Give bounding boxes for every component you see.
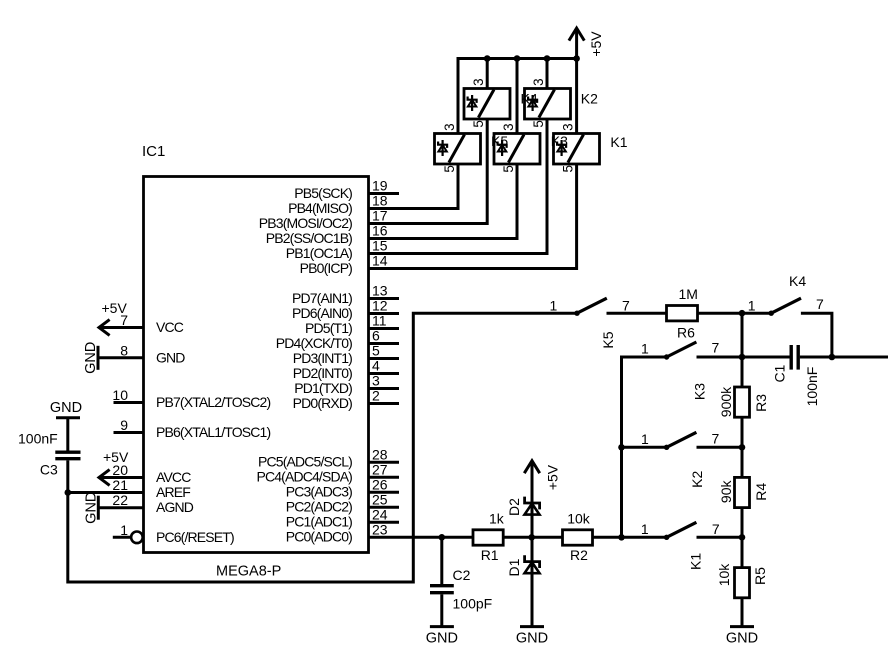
svg-text:7: 7 xyxy=(816,296,824,312)
pin 22 AGND label xyxy=(112,492,193,515)
switch K5 contact xyxy=(550,298,630,349)
svg-text:GND: GND xyxy=(83,492,99,524)
relay coil K5 xyxy=(435,123,509,172)
svg-text:K5: K5 xyxy=(600,331,616,348)
node K2-R4 junction xyxy=(739,444,746,451)
svg-text:1: 1 xyxy=(550,298,558,314)
svg-text:VCC: VCC xyxy=(156,319,184,335)
svg-text:3: 3 xyxy=(531,78,546,86)
svg-text:3: 3 xyxy=(560,123,575,131)
pin 24 PC1(ADC1) xyxy=(286,506,399,529)
svg-text:1: 1 xyxy=(748,298,756,314)
svg-text:PB4(MISO): PB4(MISO) xyxy=(288,200,352,216)
svg-text:PB5(SCK): PB5(SCK) xyxy=(294,185,352,201)
svg-text:+5V: +5V xyxy=(102,300,128,316)
svg-text:PC0(ADC0): PC0(ADC0) xyxy=(286,529,352,545)
svg-text:10: 10 xyxy=(112,387,128,403)
wire node A to node B / R3 xyxy=(741,313,744,387)
wire pin 9 stub xyxy=(114,431,144,434)
wire pin 10 stub xyxy=(114,401,144,404)
svg-text:1: 1 xyxy=(120,522,128,538)
resistor R6 xyxy=(667,286,698,341)
svg-text:R4: R4 xyxy=(753,483,769,501)
svg-text:27: 27 xyxy=(372,461,388,477)
switch K2 contact xyxy=(641,431,720,488)
svg-text:15: 15 xyxy=(372,238,388,254)
svg-text:3: 3 xyxy=(442,123,457,131)
svg-text:18: 18 xyxy=(372,193,388,209)
svg-text:7: 7 xyxy=(712,521,720,537)
power +5V arrow at VCC pin 7 xyxy=(99,300,144,335)
wire R6 to node A xyxy=(698,312,743,315)
pin 20 AVCC label xyxy=(112,462,191,485)
svg-text:5: 5 xyxy=(471,120,486,128)
wire R4 to K1 node xyxy=(741,508,744,568)
svg-text:3: 3 xyxy=(501,123,516,131)
pin 10 PB7(XTAL2/TOSC2) label xyxy=(112,387,270,410)
relay coil K2 xyxy=(525,78,599,127)
wire AREF node around IC to K5 contact xyxy=(68,313,577,582)
svg-text:5: 5 xyxy=(372,343,380,359)
node left rail - bottom junction xyxy=(618,534,625,541)
ground GND at pin 8 xyxy=(83,342,144,374)
svg-text:D2: D2 xyxy=(506,498,522,516)
svg-text:28: 28 xyxy=(372,446,388,462)
svg-text:3: 3 xyxy=(471,78,486,86)
svg-text:IC1: IC1 xyxy=(142,143,165,160)
svg-text:PD7(AIN1): PD7(AIN1) xyxy=(292,290,352,306)
wire AREF pin 21 to node xyxy=(68,491,144,494)
ground GND below D1 xyxy=(516,627,548,647)
svg-text:AREF: AREF xyxy=(156,484,190,500)
svg-text:17: 17 xyxy=(372,208,388,224)
wire C1 to node C xyxy=(800,356,832,359)
svg-text:PC3(ADC3): PC3(ADC3) xyxy=(286,484,352,500)
svg-text:9: 9 xyxy=(120,417,128,433)
svg-text:1k: 1k xyxy=(489,511,505,527)
svg-text:K2: K2 xyxy=(689,471,705,488)
wire node through D1 to GND xyxy=(531,537,534,626)
svg-text:10k: 10k xyxy=(567,511,591,527)
wire IC pin 16 to K3 coil pin 5 xyxy=(369,164,518,239)
svg-text:14: 14 xyxy=(372,253,388,269)
svg-text:PD4(XCK/T0): PD4(XCK/T0) xyxy=(276,335,352,351)
svg-text:5: 5 xyxy=(531,120,546,128)
wire node B to C1 xyxy=(742,356,790,359)
svg-text:GND: GND xyxy=(516,631,548,647)
svg-text:+5V: +5V xyxy=(545,464,561,490)
wire IC pin 15 to K2 coil pin 5 xyxy=(369,119,548,254)
svg-text:100nF: 100nF xyxy=(18,431,58,447)
wire K1 to right rail xyxy=(697,536,743,539)
switch K4 contact xyxy=(748,273,824,316)
svg-text:R1: R1 xyxy=(481,547,499,563)
svg-text:19: 19 xyxy=(372,178,388,194)
resistor R5 xyxy=(716,563,768,598)
pin 4 PD2(INT0) xyxy=(293,358,399,381)
wire C2 to GND xyxy=(440,594,443,626)
resistor R2 xyxy=(563,511,593,564)
svg-text:1: 1 xyxy=(641,521,649,537)
svg-text:PB1(OC1A): PB1(OC1A) xyxy=(286,245,352,261)
svg-text:22: 22 xyxy=(112,492,128,508)
svg-text:6: 6 xyxy=(372,328,380,344)
svg-text:C3: C3 xyxy=(40,462,58,478)
ground GND below R5 xyxy=(726,627,758,647)
resistor R4 xyxy=(718,477,769,507)
svg-text:26: 26 xyxy=(372,476,388,492)
svg-text:AGND: AGND xyxy=(156,499,194,515)
pin 26 PC3(ADC3) xyxy=(286,476,399,499)
relay coil K3 xyxy=(494,123,568,172)
power +5V arrow at AVCC pin 20 xyxy=(99,449,144,485)
svg-text:1M: 1M xyxy=(679,286,698,302)
svg-text:10k: 10k xyxy=(716,563,732,587)
svg-text:23: 23 xyxy=(372,521,388,537)
pin 23 PC0(ADC0) xyxy=(286,521,388,544)
wire node A to K4 xyxy=(742,312,771,315)
diode D2 xyxy=(506,497,540,516)
svg-text:GND: GND xyxy=(426,631,458,647)
svg-text:K2: K2 xyxy=(581,91,598,107)
relay coil K1 xyxy=(554,123,628,172)
pin 6 PD4(XCK/T0) xyxy=(276,328,399,351)
svg-text:K1: K1 xyxy=(610,134,627,150)
resistor R1 xyxy=(473,511,505,564)
pin 15 PB1(OC1A) xyxy=(286,238,388,261)
relay coil K4 xyxy=(464,78,538,127)
svg-text:PB6(XTAL1/TOSC1): PB6(XTAL1/TOSC1) xyxy=(156,424,270,440)
wire bus to K2 coil pin 3 xyxy=(546,59,549,89)
ground GND above C3 xyxy=(50,400,82,418)
pin 8 GND label xyxy=(120,342,185,365)
capacitor C2 xyxy=(430,567,492,612)
pin 27 PC4(ADC4/SDA) xyxy=(256,461,399,484)
svg-text:90k: 90k xyxy=(718,480,734,504)
svg-text:PB3(MOSI/OC2): PB3(MOSI/OC2) xyxy=(259,215,352,231)
svg-text:PD0(RXD): PD0(RXD) xyxy=(293,395,353,411)
svg-text:5: 5 xyxy=(501,165,516,173)
svg-text:900k: 900k xyxy=(718,386,734,417)
svg-text:MEGA8-P: MEGA8-P xyxy=(216,564,281,580)
wire bus to K4 coil pin 3 xyxy=(486,59,489,89)
svg-text:8: 8 xyxy=(120,342,128,358)
svg-text:PB0(ICP): PB0(ICP) xyxy=(300,260,353,276)
svg-text:GND: GND xyxy=(83,342,99,374)
svg-text:3: 3 xyxy=(372,373,380,389)
pin 13 PD7(AIN1) xyxy=(292,283,399,306)
wire K2 to right rail xyxy=(697,446,743,449)
svg-text:PD2(INT0): PD2(INT0) xyxy=(293,365,352,381)
wire bus to K3 coil pin 3 xyxy=(516,59,519,134)
wire node to C2 xyxy=(440,537,443,584)
wire IC pin 17 to K4 coil pin 5 xyxy=(369,119,488,224)
svg-text:4: 4 xyxy=(372,358,380,374)
svg-text:21: 21 xyxy=(112,477,128,493)
svg-text:R2: R2 xyxy=(570,547,588,563)
svg-text:K1: K1 xyxy=(688,553,704,570)
svg-text:PC2(ADC2): PC2(ADC2) xyxy=(286,499,352,515)
power +5V arrow top xyxy=(569,28,604,58)
svg-text:PD1(TXD): PD1(TXD) xyxy=(294,380,352,396)
diode D1 xyxy=(506,555,540,576)
wire K5 to R6 xyxy=(607,312,667,315)
pin 5 PD3(INT1) xyxy=(293,343,399,366)
wire R1 to R2 xyxy=(503,536,562,539)
svg-text:100pF: 100pF xyxy=(453,596,493,612)
svg-text:5: 5 xyxy=(560,165,575,173)
svg-text:K4: K4 xyxy=(789,273,806,289)
node A junction xyxy=(739,310,746,317)
svg-text:+5V: +5V xyxy=(588,31,604,57)
wire R2 to K1 xyxy=(593,536,667,539)
svg-text:PB7(XTAL2/TOSC2): PB7(XTAL2/TOSC2) xyxy=(156,394,270,410)
svg-text:PD5(T1): PD5(T1) xyxy=(305,320,352,336)
wire left rail to K2 xyxy=(622,446,667,449)
wire IC pin 18 to K5 coil pin 5 xyxy=(369,164,459,209)
pin 11 PD5(T1) xyxy=(305,313,399,336)
svg-text:16: 16 xyxy=(372,223,388,239)
capacitor C1 xyxy=(772,345,821,406)
ground GND below C2 xyxy=(426,627,458,647)
node C junction xyxy=(829,354,836,361)
wire GND to C3 xyxy=(66,418,69,451)
svg-text:AVCC: AVCC xyxy=(156,469,191,485)
svg-text:PC4(ADC4/SDA): PC4(ADC4/SDA) xyxy=(256,469,352,485)
wire pin 1 stub with inverted bubble xyxy=(113,532,143,544)
wire IC pin 23 to R1 xyxy=(369,536,474,539)
svg-text:R6: R6 xyxy=(677,325,695,341)
svg-text:PC6(/RESET): PC6(/RESET) xyxy=(156,529,234,545)
node C2 junction xyxy=(439,534,446,541)
pin 9 PB6(XTAL1/TOSC1) label xyxy=(120,417,270,440)
node AREF junction xyxy=(65,489,72,496)
node D1-D2 junction xyxy=(528,534,535,541)
resistor R3 xyxy=(718,386,769,417)
svg-text:K3: K3 xyxy=(692,383,708,400)
capacitor C3 xyxy=(18,431,81,478)
wire K3 lead and left rail xyxy=(622,357,667,537)
svg-text:25: 25 xyxy=(372,491,388,507)
pin 14 PB0(ICP) xyxy=(300,253,388,276)
wire +5V bus xyxy=(458,59,577,134)
svg-text:+5V: +5V xyxy=(103,449,129,465)
pin 12 PD6(AIN0) xyxy=(292,298,399,321)
pin 25 PC2(ADC2) xyxy=(286,491,399,514)
svg-text:2: 2 xyxy=(372,388,380,404)
pin 28 PC5(ADC5/SCL) xyxy=(258,446,399,469)
svg-text:PD6(AIN0): PD6(AIN0) xyxy=(292,305,352,321)
svg-text:1: 1 xyxy=(641,431,649,447)
svg-text:PB2(SS/OC1B): PB2(SS/OC1B) xyxy=(266,230,352,246)
pin 21 AREF label xyxy=(112,477,190,500)
node left rail - K2 junction xyxy=(618,444,625,451)
power +5V arrow at D2 and wire through diodes xyxy=(524,461,560,538)
pin 16 PB2(SS/OC1B) xyxy=(266,223,388,246)
svg-text:11: 11 xyxy=(372,313,387,329)
svg-text:PC5(ADC5/SCL): PC5(ADC5/SCL) xyxy=(258,454,352,470)
switch K3 contact xyxy=(641,340,720,401)
svg-text:13: 13 xyxy=(372,283,388,299)
pin 2 PD0(RXD) xyxy=(293,388,399,411)
wire K4 to node C xyxy=(801,313,832,357)
pin 3 PD1(TXD) xyxy=(294,373,399,396)
pin 7 VCC label xyxy=(120,312,184,335)
node B junction xyxy=(739,354,746,361)
svg-text:1: 1 xyxy=(641,341,649,357)
switch K1 contact xyxy=(641,521,720,570)
svg-text:100nF: 100nF xyxy=(804,367,820,407)
svg-text:PC1(ADC1): PC1(ADC1) xyxy=(286,514,352,530)
pin 17 PB3(MOSI/OC2) xyxy=(259,208,388,231)
pin 1 PC6(/RESET) label xyxy=(120,522,234,545)
wire bus to K1 coil pin 3 xyxy=(575,59,578,134)
node K1-R5 junction xyxy=(739,534,746,541)
svg-text:GND: GND xyxy=(50,400,82,416)
IC IC1 ATmega8 MEGA8-P body xyxy=(142,143,369,580)
wire IC pin 14 to K1 coil pin 5 xyxy=(369,164,577,269)
svg-text:R5: R5 xyxy=(752,567,768,585)
svg-text:GND: GND xyxy=(726,631,758,647)
wire C3 to AREF node xyxy=(66,460,69,492)
wire R5 to GND xyxy=(741,598,744,627)
svg-text:24: 24 xyxy=(372,506,388,522)
wire R3 to K2 node xyxy=(741,417,744,477)
svg-text:5: 5 xyxy=(442,165,457,173)
wire IC pin 19 stub xyxy=(369,192,400,195)
svg-text:D1: D1 xyxy=(506,558,522,576)
svg-text:GND: GND xyxy=(156,349,185,365)
svg-text:7: 7 xyxy=(712,340,720,356)
node +5V bus junctions xyxy=(484,55,580,62)
ground GND at AGND pin 22 xyxy=(83,492,143,524)
svg-text:C2: C2 xyxy=(453,567,471,583)
pin 18 PB4(MISO) xyxy=(288,193,388,216)
pin 19 PB5(SCK) xyxy=(294,178,388,201)
wire K3 to node B xyxy=(697,356,743,359)
svg-text:R3: R3 xyxy=(753,394,769,412)
svg-text:PD3(INT1): PD3(INT1) xyxy=(293,350,352,366)
svg-text:C1: C1 xyxy=(772,364,788,382)
svg-text:7: 7 xyxy=(622,298,630,314)
svg-text:12: 12 xyxy=(372,298,388,314)
svg-text:7: 7 xyxy=(712,431,720,447)
wire output to right edge xyxy=(832,356,888,359)
